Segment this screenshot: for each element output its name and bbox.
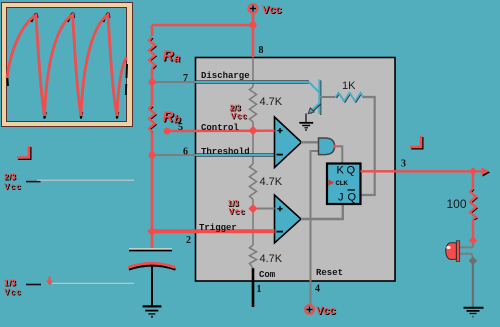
svg-text:4: 4: [315, 284, 320, 295]
svg-text:1K: 1K: [342, 80, 356, 92]
svg-text:Reset: Reset: [316, 268, 343, 278]
svg-text:2: 2: [186, 235, 191, 246]
svg-text:Q: Q: [347, 165, 356, 177]
svg-text:Vcc: Vcc: [231, 111, 248, 120]
svg-text:Q: Q: [348, 192, 357, 204]
svg-text:Vcc: Vcc: [229, 207, 246, 216]
svg-text:4.7K: 4.7K: [260, 96, 283, 108]
svg-text:Threshold: Threshold: [201, 147, 250, 157]
svg-text:Discharge: Discharge: [201, 71, 250, 81]
svg-text:Vcc: Vcc: [4, 287, 22, 296]
svg-text:6: 6: [183, 147, 188, 158]
svg-text:1/3: 1/3: [4, 279, 16, 288]
svg-text:K: K: [337, 165, 345, 177]
svg-text:7: 7: [183, 73, 188, 84]
svg-text:100: 100: [447, 197, 467, 211]
svg-text:5: 5: [178, 122, 183, 133]
svg-text:Control: Control: [201, 123, 239, 133]
svg-text:4.7K: 4.7K: [260, 176, 283, 188]
svg-text:4.7K: 4.7K: [260, 253, 283, 265]
svg-text:3: 3: [401, 159, 406, 170]
svg-text:2/3: 2/3: [4, 173, 16, 182]
svg-text:1: 1: [257, 284, 262, 295]
svg-text:8: 8: [259, 45, 264, 56]
svg-text:J: J: [338, 192, 344, 204]
svg-text:Vcc: Vcc: [316, 305, 336, 317]
svg-text:Com: Com: [259, 270, 276, 280]
svg-text:Vcc: Vcc: [262, 4, 282, 16]
svg-text:Vcc: Vcc: [4, 182, 22, 191]
svg-text:CLK: CLK: [336, 181, 349, 187]
svg-text:Trigger: Trigger: [199, 223, 237, 233]
